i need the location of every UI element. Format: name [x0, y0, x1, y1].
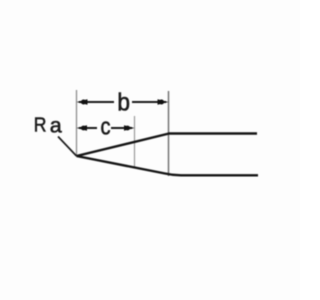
dimension line b left segment [79, 101, 114, 103]
leader line from Ra to apex [58, 137, 77, 157]
extension line right of b [168, 91, 170, 176]
dimension line c right segment [111, 127, 132, 129]
svg-text:b: b [117, 89, 130, 117]
taper outline lower [77, 156, 259, 175]
arrowhead c left [77, 125, 88, 130]
extension line left [76, 90, 78, 156]
svg-text:c: c [101, 114, 111, 141]
svg-text:R: R [34, 114, 47, 137]
svg-text:a: a [50, 114, 62, 138]
dimension line b right segment [132, 101, 166, 103]
taper outline upper [77, 134, 258, 157]
arrowhead b left [77, 99, 88, 105]
arrowhead b right [158, 99, 169, 105]
extension line right of c [134, 116, 136, 168]
arrowhead c right [124, 125, 135, 130]
dimension line c left segment [79, 127, 97, 129]
